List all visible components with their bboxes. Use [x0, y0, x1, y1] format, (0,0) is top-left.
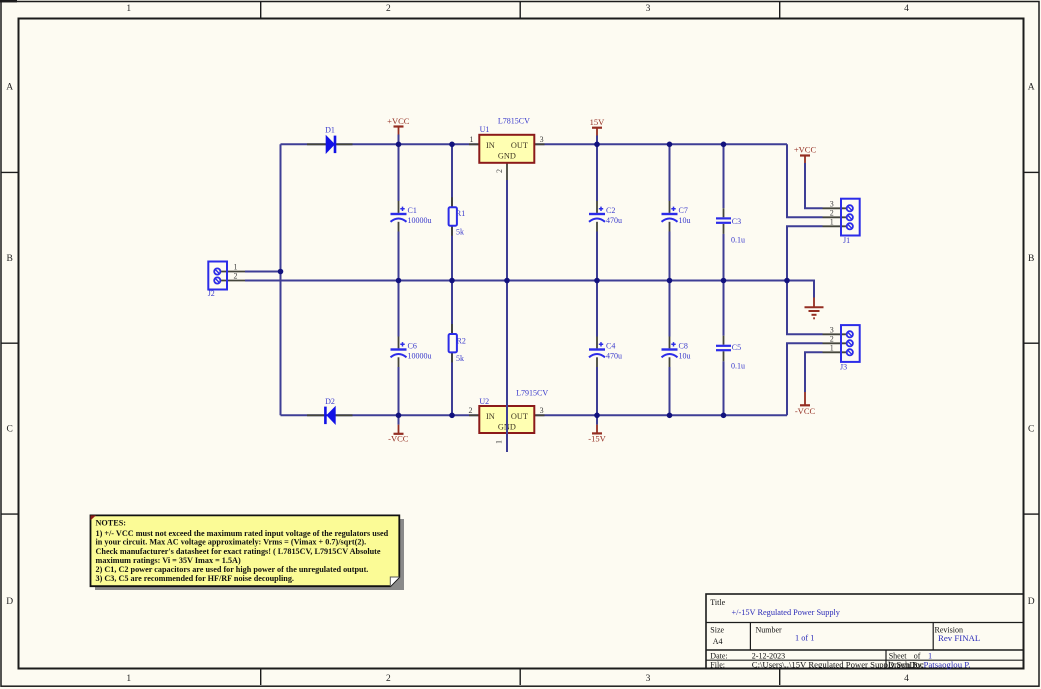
- svg-text:3: 3: [646, 674, 651, 684]
- svg-text:IN: IN: [486, 141, 495, 150]
- svg-text:2: 2: [830, 209, 834, 218]
- svg-text:10u: 10u: [679, 216, 691, 225]
- svg-text:1: 1: [495, 440, 504, 444]
- power -VCC (below C6): [394, 425, 404, 434]
- svg-text:A: A: [1028, 82, 1035, 92]
- node top rail x669: [667, 142, 673, 148]
- svg-text:Number: Number: [756, 626, 783, 635]
- svg-text:4: 4: [904, 4, 909, 14]
- svg-text:in your circuit. Max AC voltag: in your circuit. Max AC voltage approxim…: [96, 538, 367, 547]
- svg-text:IN: IN: [486, 412, 495, 421]
- svg-text:D2: D2: [325, 397, 335, 406]
- node top rail x723: [721, 142, 727, 148]
- node mid rail x669: [667, 278, 673, 284]
- wire top rail right drop to J1 pin2: [787, 144, 823, 217]
- svg-text:3: 3: [540, 135, 544, 144]
- capacitor C7: [669, 201, 671, 213]
- node mid rail x507: [504, 278, 510, 284]
- svg-text:1: 1: [234, 263, 238, 272]
- svg-text:Check manufacturer's datasheet: Check manufacturer's datasheet for exact…: [96, 547, 381, 556]
- wire J3 pin2 to bottom rail: [787, 343, 823, 415]
- svg-text:-VCC: -VCC: [388, 434, 409, 444]
- wire C7/C8 column: [669, 144, 671, 415]
- svg-text:J2: J2: [208, 289, 215, 298]
- wire 15V stub: [596, 136, 598, 145]
- svg-text:1: 1: [126, 674, 131, 684]
- node mid rail x398: [396, 278, 402, 284]
- svg-text:B: B: [1028, 254, 1034, 264]
- svg-text:A4: A4: [713, 637, 723, 646]
- svg-text:2: 2: [386, 4, 391, 14]
- node bottom rail x669: [667, 413, 673, 419]
- svg-text:B: B: [7, 254, 13, 264]
- svg-text:3) C3, C5 are recommended for: 3) C3, C5 are recommended for HF/RF nois…: [96, 574, 294, 583]
- svg-text:1) +/- VCC must not exceed the: 1) +/- VCC must not exceed the maximum r…: [96, 529, 389, 538]
- svg-text:1 of 1: 1 of 1: [795, 634, 814, 643]
- svg-text:J1: J1: [843, 236, 850, 245]
- svg-text:2: 2: [386, 674, 391, 684]
- svg-text:J3: J3: [840, 362, 847, 371]
- wire top rail: [281, 143, 788, 145]
- node mid rail x723: [721, 278, 727, 284]
- svg-text:R2: R2: [457, 337, 466, 346]
- svg-text:D: D: [1028, 597, 1035, 607]
- svg-text:U2: U2: [479, 397, 489, 406]
- svg-text:-15V: -15V: [588, 434, 606, 444]
- power 15V: [592, 128, 602, 136]
- svg-text:470u: 470u: [606, 352, 622, 361]
- svg-text:10000u: 10000u: [408, 216, 432, 225]
- wire U1 GND to mid rail: [506, 180, 508, 281]
- svg-text:R1: R1: [456, 209, 465, 218]
- node mid rail x452: [449, 278, 455, 284]
- node bottom rail x597: [594, 413, 600, 419]
- svg-text:+VCC: +VCC: [387, 116, 410, 126]
- svg-text:2: 2: [234, 272, 238, 281]
- svg-text:+VCC: +VCC: [794, 145, 817, 155]
- svg-text:D: D: [6, 597, 13, 607]
- wire left vertical input bus: [280, 144, 282, 415]
- svg-text:C6: C6: [408, 342, 417, 351]
- op-amp U2 regulator L7915CV: [469, 388, 549, 444]
- capacitor C2: [596, 201, 598, 213]
- wire mid rail: [245, 280, 787, 282]
- svg-text:C: C: [7, 425, 13, 435]
- node top rail x398: [396, 142, 402, 148]
- capacitor C6: [398, 337, 400, 349]
- svg-text:3: 3: [830, 326, 834, 335]
- svg-text:NOTES:: NOTES:: [96, 519, 126, 528]
- diode D2: [307, 397, 353, 425]
- svg-text:5k: 5k: [456, 228, 464, 237]
- svg-text:2: 2: [469, 406, 473, 415]
- power -VCC (below J3): [800, 392, 810, 405]
- svg-text:C: C: [1028, 425, 1034, 435]
- svg-text:L7915CV: L7915CV: [516, 388, 548, 397]
- svg-text:C7: C7: [679, 206, 688, 215]
- node bottom rail x723: [721, 413, 727, 419]
- svg-text:5k: 5k: [456, 354, 464, 363]
- power +VCC (near J1): [800, 156, 810, 164]
- svg-text:2: 2: [830, 335, 834, 344]
- svg-text:L7815CV: L7815CV: [498, 117, 530, 126]
- capacitor C3: [723, 208, 725, 217]
- svg-text:maximum ratings: Vi = 35V Ima: maximum ratings: Vi = 35V Imax = 1.5A): [96, 556, 241, 565]
- diode D1: [307, 126, 353, 154]
- svg-text:U1: U1: [480, 125, 490, 134]
- svg-text:3: 3: [646, 4, 651, 14]
- svg-text:3: 3: [540, 406, 544, 415]
- svg-text:OUT: OUT: [511, 141, 528, 150]
- node mid rail x787: [784, 278, 790, 284]
- svg-text:10000u: 10000u: [408, 352, 432, 361]
- wire C3/C5 column: [723, 144, 725, 415]
- svg-text:Size: Size: [710, 626, 724, 635]
- wire J1 pin1 to mid rail: [787, 226, 823, 280]
- node J2 pin1 tee: [278, 269, 284, 275]
- svg-text:0.1u: 0.1u: [731, 236, 745, 245]
- op-amp U1 regulator L7815CV: [469, 117, 545, 180]
- svg-text:OUT: OUT: [511, 412, 528, 421]
- node top rail x452: [449, 142, 455, 148]
- title block: [706, 594, 1024, 669]
- power +VCC (top left): [394, 127, 404, 135]
- svg-text:Patsaoglou P.: Patsaoglou P.: [924, 660, 971, 670]
- svg-text:10u: 10u: [679, 352, 691, 361]
- svg-text:4: 4: [904, 674, 909, 684]
- svg-text:A: A: [6, 82, 13, 92]
- resistor R1: [449, 197, 466, 236]
- connector J2: [208, 262, 245, 298]
- svg-text:C5: C5: [732, 343, 741, 352]
- notes sticky: [91, 515, 405, 590]
- node top rail x597: [594, 142, 600, 148]
- connector J3: [823, 325, 860, 371]
- svg-text:1: 1: [830, 218, 834, 227]
- capacitor C5: [723, 336, 725, 345]
- svg-text:C1: C1: [408, 206, 417, 215]
- node bottom rail x398: [396, 413, 402, 419]
- wire mid rail down through U2 to GND pin: [506, 281, 508, 453]
- resistor R2: [449, 324, 466, 363]
- capacitor C8: [669, 337, 671, 349]
- capacitor C4: [596, 337, 598, 349]
- wire mid junction down to J3 pin3: [787, 281, 823, 335]
- svg-text:-VCC: -VCC: [795, 406, 816, 416]
- svg-text:Title: Title: [710, 598, 725, 607]
- svg-text:C8: C8: [679, 342, 688, 351]
- wire +VCC stub top: [398, 135, 400, 145]
- svg-text:File:: File:: [710, 661, 725, 670]
- svg-text:1: 1: [830, 344, 834, 353]
- svg-text:3: 3: [830, 200, 834, 209]
- svg-text:1: 1: [470, 135, 474, 144]
- svg-text:Drawn By:: Drawn By:: [888, 661, 923, 670]
- svg-text:+/-15V Regulated Power Supply: +/-15V Regulated Power Supply: [732, 608, 841, 617]
- ground: [805, 298, 824, 319]
- wire +VCC to J1 pin3: [805, 163, 823, 208]
- svg-text:Date:: Date:: [710, 652, 727, 661]
- svg-text:Rev FINAL: Rev FINAL: [938, 633, 980, 643]
- node bottom rail x452: [449, 413, 455, 419]
- svg-text:15V: 15V: [590, 117, 606, 127]
- node mid rail x597: [594, 278, 600, 284]
- wire ground branch: [787, 281, 814, 298]
- svg-text:C2: C2: [606, 206, 615, 215]
- wire J2 pin1 stub: [245, 271, 281, 273]
- svg-text:2: 2: [495, 169, 504, 173]
- connector J1: [823, 199, 860, 245]
- svg-text:470u: 470u: [606, 216, 622, 225]
- svg-text:C4: C4: [606, 342, 615, 351]
- svg-text:0.1u: 0.1u: [731, 361, 745, 370]
- wire R1/R2 column: [451, 144, 453, 415]
- svg-text:1: 1: [126, 4, 131, 14]
- svg-text:D1: D1: [325, 126, 335, 135]
- power -15V: [592, 425, 602, 434]
- wire C1/C6 column: [398, 144, 400, 424]
- svg-text:2) C1, C2 power capacitors are: 2) C1, C2 power capacitors are used for …: [96, 565, 369, 574]
- wire bottom rail: [281, 414, 788, 416]
- svg-text:GND: GND: [498, 152, 516, 161]
- wire C2/C4 column and -15V stub: [596, 144, 598, 424]
- wire J3 pin1 to -VCC: [805, 352, 823, 392]
- capacitor C1: [398, 201, 400, 213]
- svg-text:C3: C3: [732, 217, 741, 226]
